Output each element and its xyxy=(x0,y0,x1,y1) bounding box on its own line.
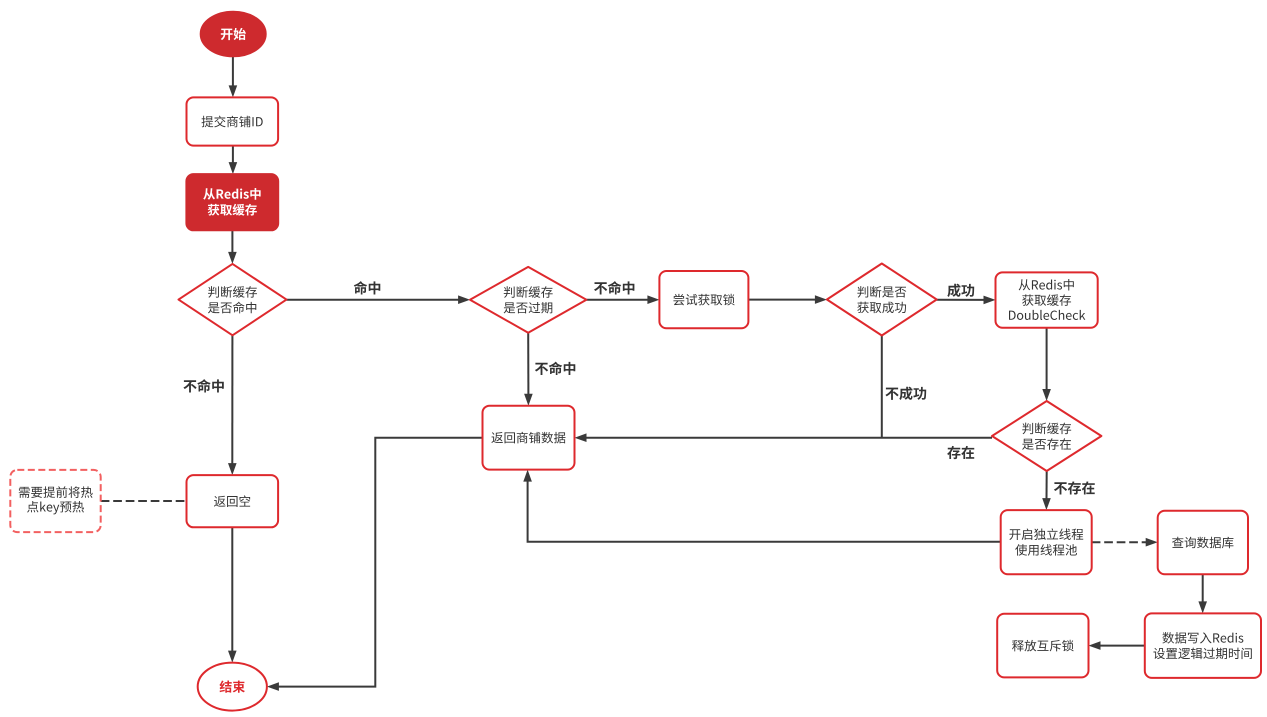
wire: submit-id -> get-cache xyxy=(232,146,234,164)
label 命中 xyxy=(354,281,381,294)
node: diamond 判断缓存是否过期 xyxy=(470,267,586,333)
node: 开启独立线程 使用线程池 xyxy=(1001,510,1092,574)
wire: doublecheck -> exists? xyxy=(1046,328,1048,390)
label 不成功 xyxy=(885,387,926,400)
wire: expired? -> return-shop-data (label 不命中) xyxy=(527,333,529,395)
wire: exists? -> return-shop-data (label 存在) xyxy=(586,437,993,439)
label 存在 xyxy=(947,446,974,459)
label 不存在 xyxy=(1054,481,1095,494)
node: 返回空 xyxy=(187,475,279,527)
node: 从Redis中获取缓存 (red) xyxy=(186,174,278,230)
wire: query-db -> write-redis xyxy=(1202,574,1204,602)
node: note 需要提前将热点key预热 (dashed) xyxy=(10,470,100,532)
node: 查询数据库 xyxy=(1158,511,1248,574)
wire: hit? -> expired? (label 命中) xyxy=(287,299,460,301)
wire: get-cache -> hit? xyxy=(231,230,233,253)
wire: start -> submit-id xyxy=(232,56,234,86)
wire: lock-ok? -> doublecheck (label 成功) xyxy=(937,299,985,301)
node: 返回商铺数据 xyxy=(483,406,575,470)
node: end ellipse 结束 xyxy=(198,663,267,711)
wire: hit? -> return-empty (label 不命中) xyxy=(231,335,233,464)
label 不命中 (left column) xyxy=(183,379,223,392)
label 不命中 (below expired?) xyxy=(535,362,575,375)
node: 释放互斥锁 xyxy=(997,614,1088,678)
label 不命中 (right of expired?) xyxy=(594,281,634,294)
wire: new-thread -> return-shop-data (bottom) xyxy=(528,481,1001,542)
node: diamond 判断是否获取成功 xyxy=(827,264,937,336)
wire: new-thread -> query-db (dashed) xyxy=(1092,541,1147,543)
wire: return-shop-data -> end xyxy=(278,438,483,687)
node: 提交商铺ID xyxy=(187,97,279,145)
wire: expired? -> try-lock (label 不命中) xyxy=(586,299,648,301)
wire: exists? -> new-thread (label 不存在) xyxy=(1046,471,1048,499)
wire: note dashed -> return-empty xyxy=(101,500,187,502)
node: start ellipse 开始 xyxy=(201,12,266,57)
node: 尝试获取锁 xyxy=(659,271,748,328)
wire: return-empty -> end xyxy=(231,527,233,651)
wire: try-lock -> lock-ok? xyxy=(748,299,816,301)
label 成功 xyxy=(947,284,974,297)
node: diamond 判断缓存是否存在 xyxy=(992,401,1101,471)
wire: lock-ok? down (label 不成功), joins horizontal xyxy=(881,336,883,438)
node: diamond 判断缓存是否命中 xyxy=(179,264,287,335)
node: 从Redis中获取缓存DoubleCheck xyxy=(996,272,1098,327)
node: 数据写入Redis 设置逻辑过期时间 xyxy=(1145,613,1261,678)
wire: write-redis -> release-lock xyxy=(1100,645,1145,647)
